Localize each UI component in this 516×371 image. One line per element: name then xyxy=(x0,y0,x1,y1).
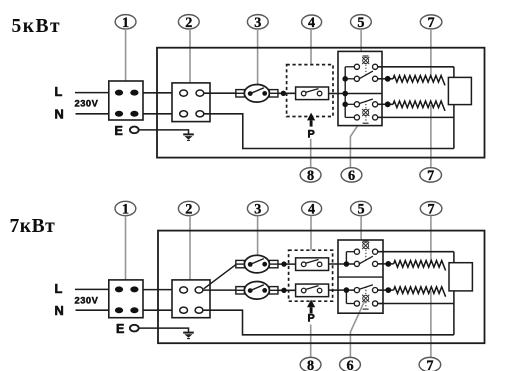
wire X1-X2 N xyxy=(143,113,172,115)
wire loop bottom xyxy=(378,116,454,118)
thermal cutout F2 xyxy=(236,255,278,273)
terminal block X1 (mains) xyxy=(109,81,143,120)
dashed link upper xyxy=(365,65,367,76)
wire to heater 2 xyxy=(378,103,393,105)
svg-text:7: 7 xyxy=(427,168,434,184)
dashed pressure group box bottom xyxy=(289,250,333,301)
lever lower K2 xyxy=(359,285,373,290)
svg-text:6: 6 xyxy=(346,358,353,371)
K2 switch lower: wires xyxy=(346,290,383,303)
lever upper K2 xyxy=(359,256,373,264)
junction dot heater 1 xyxy=(385,76,391,82)
callout 7 (bottom diagram bottom) xyxy=(419,357,441,371)
slot lower xyxy=(363,122,369,124)
bus (left common) xyxy=(344,67,346,118)
wire loop top xyxy=(378,66,454,68)
terminal E xyxy=(130,127,139,134)
contacts lower xyxy=(354,102,377,120)
ground (bottom diagram) xyxy=(183,329,194,339)
lever lower xyxy=(359,99,373,104)
callout 5 (bottom diagram) xyxy=(351,201,372,217)
callout 6 (bottom diagram) xyxy=(340,357,361,371)
heating element R2 xyxy=(393,101,445,111)
svg-text:230V: 230V xyxy=(75,97,99,108)
screw adj upper xyxy=(362,57,369,64)
leader line 2b xyxy=(189,216,191,280)
thermal cutout F1 xyxy=(236,85,278,103)
callout 8 (top diagram) xyxy=(300,168,321,184)
lever upper xyxy=(359,71,373,79)
svg-text:7кВт: 7кВт xyxy=(10,216,56,237)
callout 6 (top diagram) xyxy=(341,168,362,184)
callout 4 (bottom diagram) xyxy=(302,202,322,218)
heating element R4 xyxy=(394,287,446,297)
slot upper K2 xyxy=(363,240,369,242)
ground (top diagram) xyxy=(183,130,194,140)
junction dot bus lower xyxy=(344,287,350,293)
callout 3 (bottom diagram) xyxy=(247,201,268,217)
leader line 5b xyxy=(360,216,362,240)
wire loop top bottom-diagram xyxy=(378,251,454,253)
junction node B xyxy=(281,261,286,266)
thermal cutout F3 xyxy=(236,282,278,300)
callout 1 (top) xyxy=(115,15,136,31)
callout 2 (top) xyxy=(178,15,199,31)
wire loop bottom bottom-diagram xyxy=(378,303,454,305)
dashed link lower 2 xyxy=(365,116,367,122)
arrow P (bottom) xyxy=(307,300,315,314)
svg-text:8: 8 xyxy=(307,358,314,371)
svg-text:4: 4 xyxy=(308,15,315,31)
wire loop right bottom-diagram xyxy=(453,252,455,335)
leader line 7b bottom xyxy=(430,291,432,358)
callout 5 (top) xyxy=(351,15,372,31)
junction dot heater 2 xyxy=(385,101,391,107)
leader line 5 xyxy=(360,29,362,51)
wire pswitch to thermostat lower xyxy=(329,289,355,291)
wire E xyxy=(139,129,189,132)
wire L in xyxy=(75,92,109,94)
K2 switch upper: wires xyxy=(346,252,383,264)
svg-text:7: 7 xyxy=(426,358,433,371)
leader line 7b top xyxy=(430,216,432,263)
dashed link lower K2 xyxy=(365,287,367,295)
bracket link (heater right ends) xyxy=(448,77,471,104)
svg-text:7: 7 xyxy=(428,15,435,31)
dashed link upper K2 xyxy=(365,250,367,261)
leader line 3b xyxy=(257,216,259,256)
wire X2 to lower cutout xyxy=(203,289,236,291)
wire N return bottom xyxy=(203,310,454,335)
callout 7 (top diagram bottom) xyxy=(420,168,442,184)
callout 7 (bottom diagram top) xyxy=(420,202,442,218)
thermostat box K2 xyxy=(338,240,383,313)
svg-text:230V: 230V xyxy=(75,294,99,305)
junction node A xyxy=(281,91,286,96)
dashed link lower K2 b xyxy=(365,302,367,308)
screw adj lower xyxy=(362,109,369,116)
wire N in xyxy=(76,113,109,115)
junction dot bus bottom xyxy=(342,102,348,108)
terminal block X2 xyxy=(172,83,210,122)
wire X1-X2 L bottom xyxy=(143,289,172,291)
svg-text:1: 1 xyxy=(122,15,129,31)
svg-text:5: 5 xyxy=(357,15,364,31)
leader line 7 bottom xyxy=(430,105,432,168)
terminal block X2 bottom xyxy=(172,280,210,318)
svg-text:L: L xyxy=(55,281,63,296)
wire to heater 3 xyxy=(378,263,394,265)
svg-text:2: 2 xyxy=(185,202,192,218)
svg-text:3: 3 xyxy=(254,15,261,31)
svg-text:E: E xyxy=(116,322,124,336)
contacts lower K2 xyxy=(354,288,377,307)
junction dot heater 3 xyxy=(385,261,391,267)
wire to heater 1 xyxy=(378,78,393,80)
callout 4 (top) xyxy=(302,15,322,31)
wire loop right xyxy=(453,67,455,149)
thermostat box K1 xyxy=(338,51,382,125)
leader line 7 top xyxy=(430,29,432,78)
contacts upper xyxy=(354,64,377,81)
slot upper xyxy=(363,55,369,57)
svg-text:E: E xyxy=(115,124,123,138)
leader line 8b xyxy=(310,325,312,358)
leader line 2 xyxy=(189,29,191,83)
contacts upper K2 xyxy=(354,249,377,266)
svg-text:1: 1 xyxy=(122,202,129,218)
leader line 4b xyxy=(310,216,312,251)
leader line 6 xyxy=(350,115,364,168)
svg-text:P: P xyxy=(308,312,315,324)
wire E bottom xyxy=(139,327,189,330)
svg-text:4: 4 xyxy=(308,202,315,218)
leader line 3 xyxy=(257,29,259,85)
bus lower K2 xyxy=(345,290,347,303)
bus upper K2 xyxy=(345,252,347,264)
svg-text:P: P xyxy=(308,129,315,141)
wire cutout to pressure switch xyxy=(278,92,296,94)
junction dot heater 4 xyxy=(385,287,391,293)
wire N in bottom xyxy=(76,309,109,311)
leader line 1 xyxy=(125,29,127,90)
wire X1-X2 N bottom xyxy=(143,309,172,311)
wire N return xyxy=(204,114,454,149)
svg-text:3: 3 xyxy=(254,202,261,218)
svg-text:L: L xyxy=(55,84,63,99)
svg-text:6: 6 xyxy=(348,168,355,184)
screw adj upper K2 xyxy=(362,242,369,249)
pressure switch S2 xyxy=(296,258,329,271)
wire cutout to pswitch upper xyxy=(278,263,296,265)
wire cutout to pswitch lower xyxy=(278,289,296,291)
junction dot bus top xyxy=(342,76,348,82)
enclosure (top diagram) xyxy=(157,48,485,158)
callout 2 (bottom diagram) xyxy=(178,201,199,217)
callout 7 (top right) xyxy=(420,15,442,31)
svg-text:N: N xyxy=(55,303,64,318)
thermostat switch lower: wires xyxy=(345,104,382,117)
pressure switch S3 xyxy=(296,284,329,297)
junction dot bus upper xyxy=(344,261,350,267)
wire pressure switch to thermostat xyxy=(329,93,338,95)
terminal E bottom xyxy=(130,325,139,332)
callout 3 (top) xyxy=(247,15,268,31)
wire X1-X2 L xyxy=(143,92,172,94)
leader line 6b xyxy=(350,301,364,358)
junction dot bus mid xyxy=(342,91,348,97)
leader line 4 xyxy=(310,29,312,65)
wire pswitch to thermostat upper xyxy=(329,263,355,265)
slot lower K2 xyxy=(363,308,369,310)
junction node C xyxy=(281,288,286,293)
leader line 8 xyxy=(310,139,312,168)
callout 8 (bottom diagram) xyxy=(300,357,321,371)
pressure switch S1 xyxy=(296,87,329,100)
heating element R3 xyxy=(394,261,446,271)
svg-text:5: 5 xyxy=(357,202,364,218)
divider / through wire xyxy=(338,93,382,95)
svg-text:8: 8 xyxy=(307,168,314,184)
svg-text:N: N xyxy=(55,106,64,121)
heating element R1 xyxy=(393,76,445,86)
dashed pressure group box xyxy=(287,65,333,117)
divider K2 xyxy=(338,276,383,278)
svg-text:2: 2 xyxy=(185,15,192,31)
wire to heater 4 xyxy=(378,289,394,291)
screw adj lower K2 xyxy=(362,295,369,302)
arrow P (top) xyxy=(307,113,315,127)
terminal block X1 bottom xyxy=(109,280,143,318)
svg-text:5кВт: 5кВт xyxy=(12,16,62,37)
svg-text:7: 7 xyxy=(428,202,435,218)
bracket link bottom (heater right ends) xyxy=(449,263,472,291)
callout 1 (bottom diagram) xyxy=(115,201,136,217)
wire diagonal X2 to upper cutout xyxy=(204,264,237,289)
thermostat switch upper: wires xyxy=(345,67,382,79)
dashed link lower xyxy=(365,101,367,109)
enclosure (bottom diagram) xyxy=(158,231,485,344)
wire L in bottom xyxy=(75,288,109,290)
leader line 1b xyxy=(125,216,127,287)
wire X2 to thermal cutout xyxy=(204,92,236,94)
